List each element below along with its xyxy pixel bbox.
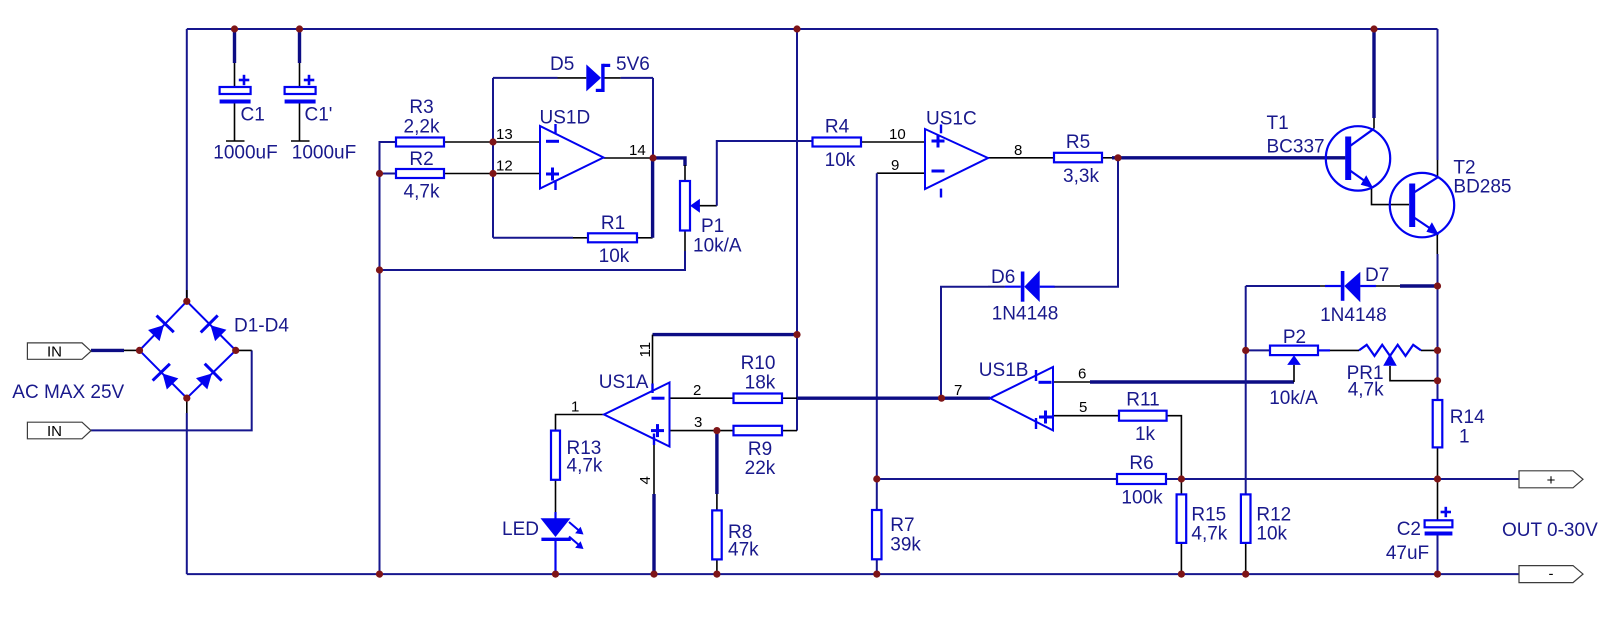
wire D7-P2-R12 left vertical [1245, 286, 1247, 494]
potentiometer P1 [680, 181, 700, 231]
svg-text:IN: IN [47, 423, 62, 440]
svg-text:1: 1 [571, 399, 579, 416]
wire D7 branch [1246, 285, 1320, 287]
wire pin 5 to R11 [1053, 415, 1119, 417]
node rail R8 [713, 571, 720, 578]
wire bottom rail [187, 573, 1519, 575]
svg-text:C1: C1 [241, 105, 265, 126]
resistor R6 [1117, 474, 1166, 484]
svg-text:14: 14 [629, 142, 646, 159]
wire R10 to node 7 to US1B output [797, 397, 990, 400]
svg-text:2: 2 [693, 382, 701, 399]
wire D5 top branch [493, 77, 558, 79]
resistor R11 [1119, 411, 1167, 421]
svg-text:R10: R10 [741, 353, 776, 374]
svg-text:D5: D5 [550, 54, 574, 75]
node R5 output [1114, 154, 1121, 161]
transistor T1 BC337 [1326, 126, 1390, 190]
wire pin 3 [670, 430, 734, 432]
svg-text:1N4148: 1N4148 [992, 304, 1059, 325]
resistor R2 [396, 169, 444, 178]
wire PR1 wiper stem [1390, 366, 1438, 381]
svg-text:R3: R3 [409, 97, 433, 118]
svg-text:10k: 10k [1256, 524, 1287, 545]
svg-text:13: 13 [496, 126, 513, 143]
svg-text:D7: D7 [1365, 265, 1389, 286]
resistor R1 [588, 233, 637, 242]
wire P1 wiper to R4 [698, 205, 717, 207]
svg-text:R12: R12 [1256, 505, 1291, 526]
transistor T2 BD285 [1390, 173, 1454, 237]
svg-text:R7: R7 [890, 515, 914, 536]
node bus P1 bottom [376, 266, 383, 273]
bridge diode lower-left [153, 364, 182, 392]
wire right vertical rail [1437, 29, 1439, 160]
svg-text:2,2k: 2,2k [404, 117, 440, 138]
terminal IN 1 [27, 343, 91, 359]
svg-text:47uF: 47uF [1386, 543, 1429, 564]
node pin 13 [489, 138, 496, 145]
wire R9 right to bus [782, 430, 797, 432]
wire R4 right to pin 10 [861, 141, 925, 143]
node pin 11 rail [793, 331, 800, 338]
node bridge bottom [183, 395, 190, 402]
wire pin 11 rail [653, 333, 798, 336]
svg-text:18k: 18k [745, 373, 776, 394]
wire P2 wiper stem [1293, 365, 1295, 382]
op-amp US1C [925, 125, 988, 198]
svg-text:-: - [1549, 566, 1554, 583]
svg-text:R2: R2 [409, 149, 433, 170]
svg-text:OUT 0-30V: OUT 0-30V [1502, 520, 1598, 541]
svg-text:R1: R1 [601, 213, 625, 234]
terminal OUT + [1519, 471, 1583, 488]
zener diode D5 [586, 64, 610, 92]
wire T1 collector up [1372, 29, 1375, 118]
node P2 left [1242, 347, 1249, 354]
trimmer PR1 [1359, 345, 1421, 366]
wire LED to rail [554, 541, 556, 575]
op-amp US1A [604, 383, 670, 447]
node rail pin4 [650, 571, 657, 578]
capacitor C1' [285, 29, 316, 141]
svg-text:R9: R9 [748, 439, 772, 460]
wire pin 1 to R13 [556, 415, 605, 431]
svg-text:10: 10 [889, 126, 906, 143]
svg-text:100k: 100k [1121, 488, 1163, 509]
bridge rectifier D1-D4 [140, 301, 236, 398]
node pin 12 [489, 170, 496, 177]
wire R10 right stub [782, 397, 797, 399]
potentiometer P2 [1270, 346, 1318, 365]
wire R3 right to pin 13 [444, 141, 540, 143]
resistor R13 [551, 431, 560, 480]
svg-text:3,3k: 3,3k [1063, 166, 1099, 187]
node rail R15 [1178, 571, 1185, 578]
diode D6 [1005, 271, 1055, 303]
resistor R4 [813, 138, 862, 147]
svg-text:10k: 10k [599, 246, 630, 267]
wire pin 9 vertical down to R7 and rail [876, 173, 878, 510]
svg-text:D1-D4: D1-D4 [234, 316, 289, 337]
wire node 14 to P1 top [653, 158, 685, 166]
node OUT+ R14 [1434, 475, 1441, 482]
svg-text:R14: R14 [1450, 407, 1485, 428]
wire pin 11 stub [652, 335, 654, 388]
wire R1 bottom branch [493, 237, 573, 239]
svg-text:11: 11 [637, 342, 654, 358]
svg-text:1: 1 [1459, 427, 1470, 448]
wire P2 right to PR1 [1318, 349, 1330, 351]
node top rail C1' [296, 25, 303, 32]
svg-text:BC337: BC337 [1267, 137, 1325, 158]
wire R11 right down to R6 node [1167, 416, 1182, 479]
svg-text:P1: P1 [701, 216, 724, 237]
node top rail center bus [793, 25, 800, 32]
LED [541, 518, 584, 549]
resistor R12 [1241, 494, 1251, 543]
wire bus to R2 [380, 173, 397, 175]
wire left border vertical [186, 29, 188, 301]
wire R6 output line to OUT+ [877, 478, 1117, 480]
resistor R3 [396, 138, 444, 147]
node bridge left [136, 347, 143, 354]
wire pin 6 to P2 wiper [1053, 381, 1090, 383]
svg-text:10k/A: 10k/A [1269, 388, 1318, 409]
node rail R7 [873, 571, 880, 578]
svg-text:10k: 10k [825, 150, 856, 171]
svg-text:4,7k: 4,7k [567, 456, 603, 477]
wire D5 feedback loop left vertical [492, 78, 494, 238]
svg-text:R4: R4 [825, 117, 850, 138]
wire R8 vertical [715, 431, 718, 494]
svg-text:R11: R11 [1126, 390, 1159, 411]
wire pin 4 down to rail [653, 443, 655, 494]
wire IN1 to bridge [91, 349, 124, 352]
node rail LED [552, 571, 559, 578]
svg-text:47k: 47k [728, 540, 759, 561]
op-amp US1B [990, 367, 1053, 430]
svg-text:+: + [1547, 472, 1556, 489]
wire R2 right to pin 12 [444, 173, 540, 175]
svg-text:5V6: 5V6 [616, 54, 650, 75]
wire D5 right vertical down to node 14 [652, 78, 654, 158]
node D7 right [1434, 282, 1441, 289]
resistor R15 [1177, 494, 1187, 543]
op-amp US1D [540, 124, 604, 190]
node rail R12 [1242, 571, 1249, 578]
wire PR1 right to node [1421, 349, 1438, 351]
svg-text:BD285: BD285 [1453, 177, 1511, 198]
svg-text:1N4148: 1N4148 [1320, 305, 1387, 326]
bridge diode upper-right [201, 315, 229, 343]
node R6 right [1178, 475, 1185, 482]
svg-text:6: 6 [1078, 366, 1086, 383]
node PR1 right [1434, 347, 1441, 354]
svg-text:IN: IN [47, 344, 62, 361]
wire node 14 down to R1 [651, 158, 654, 238]
svg-text:US1B: US1B [979, 360, 1029, 381]
resistor R9 [734, 426, 783, 436]
wire pin 9 horizontal [877, 172, 925, 174]
node rail bus [376, 571, 383, 578]
diode D7 [1325, 271, 1376, 302]
wire bridge bottom to bottom rail [186, 398, 188, 413]
node top rail C1 [231, 25, 238, 32]
node top rail T1 collector [1370, 25, 1377, 32]
wire top rail [187, 28, 1438, 30]
svg-text:4,7k: 4,7k [1348, 380, 1384, 401]
svg-text:1000uF: 1000uF [213, 143, 277, 164]
wire R5 right to node [1102, 157, 1112, 159]
svg-text:C1': C1' [305, 105, 333, 126]
svg-text:22k: 22k [745, 458, 776, 479]
resistor R10 [734, 394, 783, 404]
wire R15 vertical [1180, 479, 1182, 494]
svg-text:3: 3 [694, 414, 702, 431]
terminal OUT - [1519, 566, 1583, 583]
node bridge top [183, 298, 190, 305]
node 14 output [649, 154, 656, 161]
svg-text:4: 4 [637, 476, 654, 484]
svg-text:T1: T1 [1267, 113, 1289, 134]
svg-text:1k: 1k [1135, 424, 1156, 445]
svg-text:39k: 39k [890, 535, 921, 556]
node rail C2 [1434, 571, 1441, 578]
svg-text:R6: R6 [1129, 453, 1153, 474]
node bridge right [232, 347, 239, 354]
wire left bus vertical [380, 142, 397, 574]
svg-text:10k/A: 10k/A [693, 236, 742, 257]
node R7 top [873, 475, 880, 482]
svg-text:12: 12 [496, 158, 513, 175]
svg-text:9: 9 [891, 157, 899, 174]
wire long center vertical bus [796, 29, 798, 335]
node bus R2 [376, 170, 383, 177]
terminal IN 2 [27, 422, 91, 439]
capacitor C1 [220, 29, 251, 141]
svg-text:US1C: US1C [926, 109, 977, 130]
svg-text:4,7k: 4,7k [404, 182, 440, 203]
wire R5 node to T1 base [1112, 156, 1345, 159]
wire R13 to LED [555, 480, 557, 512]
svg-text:5: 5 [1079, 399, 1087, 416]
svg-text:R5: R5 [1066, 132, 1090, 153]
svg-text:8: 8 [1014, 142, 1022, 159]
resistor R14 [1433, 400, 1443, 447]
wire pin 2 [670, 397, 734, 399]
svg-text:LED: LED [502, 519, 539, 540]
svg-text:P2: P2 [1283, 327, 1306, 348]
wire IN2 to bridge right [91, 350, 252, 430]
svg-text:D6: D6 [991, 267, 1015, 288]
capacitor C2 [1425, 507, 1453, 534]
wire P2 left lead [1246, 349, 1270, 351]
node 7 [938, 395, 945, 402]
svg-text:R15: R15 [1191, 505, 1226, 526]
svg-text:AC MAX 25V: AC MAX 25V [12, 382, 124, 403]
svg-text:4,7k: 4,7k [1191, 524, 1227, 545]
wire P1 bottom to bus [684, 231, 686, 253]
bridge diode upper-left [145, 316, 174, 344]
resistor R5 [1054, 153, 1102, 163]
bridge diode lower-right [193, 364, 221, 392]
wire US1D output [604, 157, 654, 159]
node PR1 wiper [1434, 377, 1441, 384]
svg-text:T2: T2 [1453, 158, 1475, 179]
svg-text:US1D: US1D [540, 108, 591, 129]
svg-text:7: 7 [954, 382, 962, 399]
wire bridge top stub [186, 290, 188, 301]
wire D6 left lead [988, 286, 1005, 288]
resistor R8 [712, 510, 722, 559]
svg-text:1000uF: 1000uF [292, 143, 356, 164]
svg-text:C2: C2 [1397, 519, 1421, 540]
svg-text:US1A: US1A [599, 372, 649, 393]
wire T1 emitter to T2 base [1372, 187, 1410, 205]
wire US1C output to R5 [988, 157, 1054, 159]
resistor R7 [872, 510, 882, 559]
wire R5 node down to D6 [1054, 158, 1118, 287]
node pin 3 [713, 427, 720, 434]
